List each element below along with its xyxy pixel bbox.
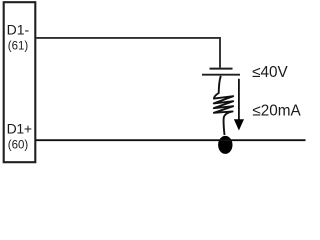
svg-text:D1-: D1- — [7, 22, 30, 38]
svg-text:D1+: D1+ — [7, 120, 32, 136]
svg-text:≤40V: ≤40V — [252, 64, 288, 81]
svg-text:(60): (60) — [8, 139, 29, 151]
svg-text:≤20mA: ≤20mA — [252, 102, 301, 119]
svg-text:(61): (61) — [8, 41, 29, 53]
